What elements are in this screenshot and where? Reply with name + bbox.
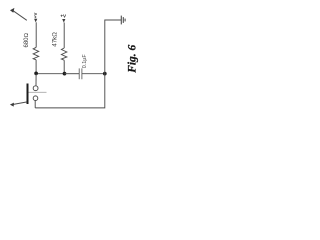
leader arrow (reference pointer, bottom-left)	[10, 102, 27, 107]
wire: bottom rail up to lower terminal	[34, 101, 36, 108]
svg-text:47kΩ: 47kΩ	[52, 32, 59, 47]
supply arrowhead (column 1)	[34, 19, 37, 23]
microphone lower terminal circle	[33, 96, 38, 101]
wire: upper terminal to node A	[35, 74, 37, 86]
wire: supply to resistor R1	[35, 22, 37, 47]
microphone upper terminal circle	[33, 86, 38, 91]
leader arrow (reference pointer, top-left)	[10, 8, 27, 20]
resistor R2 zigzag	[61, 48, 66, 60]
node B junction dot	[63, 72, 67, 76]
wire: signal rail node A to node B	[36, 73, 64, 75]
wire: capacitor C1 to node C	[82, 73, 105, 75]
ground symbol (rotated, bars to the right)	[121, 16, 125, 25]
wire: node C down and along bottom rail	[35, 74, 105, 108]
svg-text:+V: +V	[60, 14, 67, 19]
wire: supply to resistor R2	[63, 23, 65, 49]
svg-text:0.1µF: 0.1µF	[82, 54, 88, 69]
capacitor C1 plates	[79, 68, 82, 79]
svg-text:+V: +V	[33, 12, 38, 19]
node A junction dot	[34, 72, 38, 76]
supply arrowhead (column 2)	[62, 19, 65, 23]
resistor R1 zigzag	[33, 47, 39, 60]
node C junction dot	[103, 72, 107, 76]
svg-text:680Ω: 680Ω	[24, 32, 30, 47]
svg-text:Fig. 6: Fig. 6	[126, 44, 138, 73]
wire: node C up to ground branch	[105, 20, 121, 74]
microphone element bar	[27, 84, 29, 105]
wire: node B to capacitor C1	[64, 73, 79, 75]
wire: R1 to node A	[35, 60, 37, 74]
wire: R2 to node B	[63, 60, 65, 73]
microphone internal faint line	[28, 91, 46, 93]
